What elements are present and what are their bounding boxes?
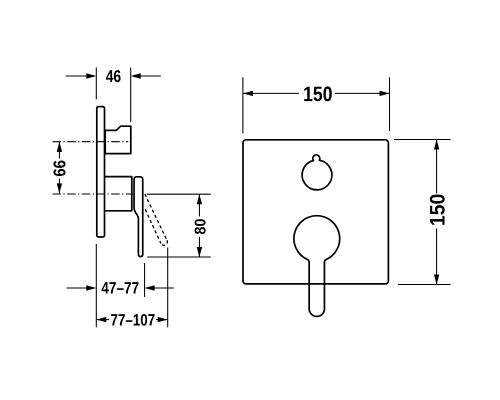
arrow 66 bottom <box>57 183 62 193</box>
arrow 47-77 right <box>145 285 155 290</box>
dim 47-77 line right <box>154 287 174 289</box>
dim 66 line segments <box>58 142 60 193</box>
arrow 150 left <box>243 91 253 96</box>
label 47-77 <box>102 282 139 293</box>
extension line plate right (x=389.5) <box>389 77 391 131</box>
dim 46 line right <box>140 75 160 77</box>
label 46 <box>106 70 121 82</box>
dim 77-107 line left <box>96 319 109 321</box>
arrow 150 bottom <box>434 275 439 285</box>
extension line plate front bottom (x=96.3) <box>95 244 97 327</box>
arrowheads left view <box>57 73 202 322</box>
extension line handle back (x=144.6) <box>144 263 146 297</box>
extension line plate top (y=139.5) <box>394 139 451 141</box>
dim 77-107 line right <box>156 319 168 321</box>
arrow 150 top <box>434 140 439 150</box>
cartridge body (side view) <box>105 177 132 211</box>
diverter knob (front view, circle with nub) <box>302 155 332 190</box>
lever handle (front view, circle with stem) <box>294 216 340 317</box>
dim 47-77 line left <box>66 287 86 289</box>
diverter knob housing (side view) <box>105 126 131 153</box>
centerline upper (knob axis) <box>53 141 129 143</box>
centerline lower (cartridge axis) <box>52 193 133 195</box>
arrow 77-107 right <box>158 317 168 322</box>
label 77-107 <box>111 314 155 326</box>
extension line dashed-handle tip (x=167.7) <box>167 248 169 328</box>
arrow 46 right <box>131 73 141 78</box>
arrow 47-77 left <box>86 285 96 290</box>
extension line knob back (x=130.7) <box>130 68 132 122</box>
dim 80 reference bottom <box>147 256 211 258</box>
label 80 (rotated) <box>195 219 206 234</box>
dim 80 reference top <box>147 193 211 195</box>
dim 150 horizontal line segments <box>243 92 390 94</box>
extension line plate bottom (y=284.5) <box>398 284 451 286</box>
label 150 horizontal <box>304 86 332 101</box>
cover plate (front view) <box>243 140 388 284</box>
label 66 (rotated) <box>53 161 65 177</box>
dim 150 vertical line segments <box>436 140 438 284</box>
lever handle alternate position (dashed) <box>145 194 168 245</box>
lever handle (side view, solid) <box>134 177 143 257</box>
wall plate (side view) <box>97 107 105 237</box>
extension line plate left (x=242.9) <box>242 77 244 133</box>
label 150 vertical (rotated) <box>430 195 445 225</box>
arrow 80 top <box>197 194 202 204</box>
dim 80 line segments <box>198 195 200 257</box>
arrow 46 left <box>86 73 96 78</box>
arrow 150 right <box>380 91 390 96</box>
extension line plate front (x=96.3) top <box>95 68 97 100</box>
arrow 77-107 left <box>96 317 106 322</box>
arrow 80 bottom <box>197 247 202 257</box>
arrow 66 top <box>57 142 62 152</box>
dim 46 line left <box>66 75 87 77</box>
